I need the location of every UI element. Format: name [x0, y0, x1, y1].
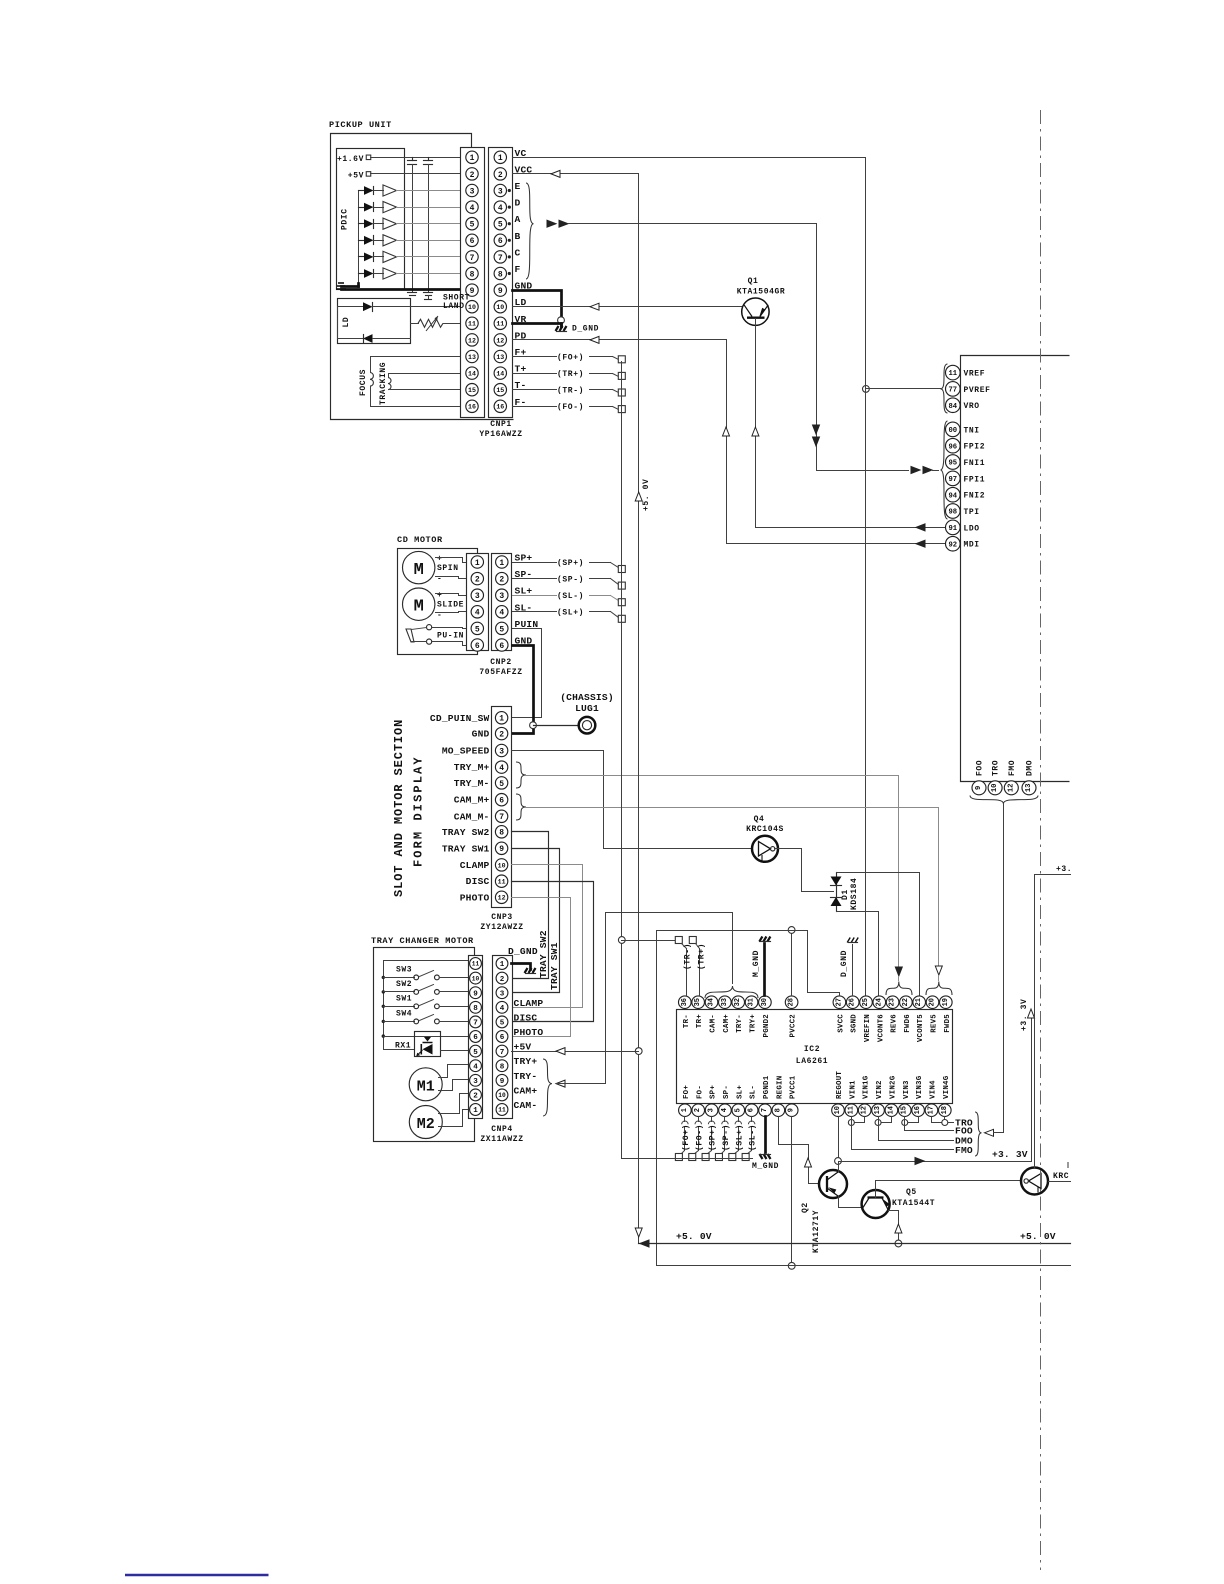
chassis lug LUG1	[579, 717, 596, 734]
svg-text:SL-: SL-	[750, 1085, 758, 1099]
IC2 pin 6 SL-	[745, 1104, 758, 1117]
wire EF group into TNI bracket	[817, 470, 909, 472]
motor M1	[409, 1068, 442, 1101]
svg-text:KDS184: KDS184	[850, 878, 859, 910]
IC2 pin 3 SP+	[705, 1104, 718, 1117]
IC2 pin 13 VIN2	[872, 1104, 885, 1117]
wire VCC to +5V bus	[513, 173, 639, 175]
IC2 pin 27 SVCC	[833, 996, 846, 1009]
wire VC junction to VREF bracket	[866, 388, 941, 390]
CNP4 board pin 2	[470, 1089, 482, 1101]
svg-text:CNP2: CNP2	[490, 658, 512, 667]
wire FOO group down to IC2 output bracket	[1003, 804, 1005, 1133]
svg-text:TNI: TNI	[964, 426, 980, 435]
wire (SL-) from CNP2 pin 3	[513, 595, 557, 597]
svg-text:CAM-: CAM-	[710, 1014, 718, 1033]
arrow into LDO	[916, 524, 925, 531]
svg-text:94: 94	[948, 492, 957, 500]
svg-text:SW4: SW4	[396, 1009, 412, 1018]
svg-text:SW2: SW2	[396, 980, 412, 989]
junction cable bus to TR squares	[618, 937, 625, 944]
svg-text:(TR-): (TR-)	[557, 387, 584, 396]
svg-text:CNP3: CNP3	[491, 913, 513, 922]
brace E..F group	[526, 183, 534, 279]
IC2 pin 32 TRY-	[732, 996, 745, 1009]
TRACKING coil	[388, 378, 391, 390]
cable terminal square (SP-)	[715, 1154, 722, 1161]
transistor Q5 KTA1544T	[862, 1190, 890, 1218]
servo IC pin 00 TNI	[946, 422, 961, 437]
svg-text:SPIN: SPIN	[437, 564, 459, 573]
IC2 pin 16 VIN3G	[912, 1104, 925, 1117]
wire bus junction to TR- square	[622, 940, 676, 942]
svg-text:+5. 0V: +5. 0V	[1020, 1231, 1056, 1242]
svg-text:6: 6	[499, 797, 504, 806]
double arrow down on EF wire	[813, 425, 820, 434]
svg-text:4: 4	[500, 1005, 505, 1013]
IC2 pin 21 VCONT5	[913, 996, 926, 1009]
IC2 pin 35 TR+	[692, 996, 705, 1009]
PVCC rail bottom	[657, 1265, 1071, 1267]
wire Q2 emitter to REGOUT junction	[838, 1162, 840, 1172]
hollow down arrow on +5V bus bottom	[635, 1228, 642, 1237]
wire junction to LUG1	[534, 725, 579, 727]
connector CNP1 board-side column box	[461, 148, 485, 418]
svg-text:14: 14	[468, 370, 476, 377]
svg-text:KRC104S: KRC104S	[746, 825, 784, 834]
wire TRY_M pair to REV6/FWD6	[527, 776, 899, 967]
hollow arrow TRY CAM group	[556, 1080, 565, 1087]
svg-text:16: 16	[914, 1106, 922, 1114]
IC2 pin 1 cable drop (FO+)	[684, 1117, 686, 1122]
svg-text:+3. 3V: +3. 3V	[1020, 999, 1029, 1031]
svg-text:Q2: Q2	[801, 1202, 810, 1213]
wire VIN4G pin18 join	[944, 1117, 946, 1123]
laser diode LD	[338, 306, 364, 308]
CNP4 board pin 9	[470, 987, 482, 999]
svg-text:12: 12	[468, 337, 476, 344]
wire D1 bottom to VCONT6	[837, 912, 879, 996]
brace over REV6 FWD6	[886, 982, 912, 996]
svg-text:2: 2	[499, 575, 504, 584]
svg-text:(SL+): (SL+)	[557, 609, 584, 618]
svg-text:11: 11	[498, 879, 506, 886]
wire PD to pin12 inside	[373, 338, 411, 340]
svg-text:VREF: VREF	[964, 370, 986, 379]
wire VIN1 pin11 to FMO line	[852, 1117, 954, 1150]
hollow up arrow on Q5 emitter wire	[895, 1224, 902, 1233]
thick wire PDIC gnd to pin9	[342, 288, 461, 291]
svg-text:D_GND: D_GND	[508, 946, 538, 957]
ground symbol D_GND at CNP4	[525, 968, 536, 973]
svg-text:9: 9	[500, 1078, 505, 1086]
svg-text:M_GND: M_GND	[752, 1162, 779, 1171]
wire SW2 to CNP4	[440, 991, 469, 993]
wire REGIN to Q2 base	[779, 1117, 820, 1184]
wire slide+ to CNP2 pin3	[436, 594, 467, 596]
CNP3 pin 3	[495, 744, 507, 756]
CNP1 pin 11 cable side	[494, 317, 506, 329]
svg-text:ZX11AWZZ: ZX11AWZZ	[480, 1135, 523, 1144]
svg-text:KRC: KRC	[1053, 1172, 1069, 1181]
svg-text:15: 15	[901, 1106, 909, 1114]
wire Q1 collector to LDO	[756, 319, 946, 528]
wire MO_SPEED to Q4	[512, 751, 753, 849]
svg-text:M: M	[414, 561, 424, 580]
svg-text:12: 12	[496, 337, 504, 344]
CNP1 pin 4 cable side	[494, 201, 506, 213]
CNP3 pin 7	[495, 810, 507, 822]
wire Q2 collector to Q5	[839, 1197, 862, 1208]
wire PDIC out pin 8	[397, 273, 461, 275]
cable terminal square (SP+)	[702, 1154, 709, 1161]
svg-text:2: 2	[470, 171, 475, 180]
svg-text:11: 11	[847, 1106, 855, 1114]
pickup cable bus wire	[621, 362, 623, 1159]
svg-text:35: 35	[694, 998, 702, 1006]
svg-text:25: 25	[862, 998, 870, 1006]
wire SW1 to CNP4	[440, 1006, 469, 1008]
solid right arrow on REGOUT wire	[915, 1158, 924, 1165]
IC2 pin 2 FO-	[692, 1104, 705, 1117]
ground symbol D_GND at CNP1	[556, 326, 567, 331]
wire VIN3 pin15 to FOO line	[905, 1117, 954, 1131]
svg-text:PGND2: PGND2	[763, 1014, 771, 1037]
svg-text:CAM_M-: CAM_M-	[454, 811, 490, 822]
svg-text:9: 9	[470, 287, 475, 296]
svg-text:M_GND: M_GND	[752, 950, 761, 977]
wire SW3 to CNP4	[440, 977, 469, 979]
svg-text:ZY12AWZZ: ZY12AWZZ	[480, 923, 523, 932]
svg-text:6: 6	[498, 237, 503, 246]
+3.3V riser with hollow arrow	[1031, 1014, 1033, 1162]
svg-text:CAM+: CAM+	[514, 1085, 538, 1096]
wire DISC CNP3 to CNP4	[512, 882, 594, 1022]
svg-text:VIN2: VIN2	[876, 1080, 884, 1099]
IC2 pin 5 cable drop (SL+)	[738, 1117, 740, 1122]
svg-text:DISC: DISC	[466, 876, 490, 887]
cable terminal square (SP-)	[618, 582, 625, 589]
wire PD pin12 down and to MDI	[513, 340, 946, 544]
(TR-) cable square	[675, 937, 682, 944]
svg-text:5: 5	[470, 221, 475, 230]
brace over REV5 FWD5	[926, 982, 952, 996]
servo IC pin 96 FPI2	[946, 438, 961, 453]
svg-text:MO_SPEED: MO_SPEED	[442, 746, 490, 757]
IC2 pin 14 VIN2G	[885, 1104, 898, 1117]
svg-text:C: C	[515, 247, 521, 258]
LD block bottom-left joint	[337, 307, 339, 339]
connector CNP2 cable column box	[492, 554, 512, 651]
svg-text:8: 8	[498, 270, 503, 279]
CNP2 pin 4 board side	[471, 606, 483, 618]
svg-text:VIN2G: VIN2G	[889, 1075, 897, 1099]
svg-text:5: 5	[473, 1049, 478, 1057]
svg-text:13: 13	[874, 1106, 882, 1114]
PDIC ground hatch	[336, 283, 346, 289]
svg-text:PVCC2: PVCC2	[790, 1014, 798, 1037]
CNP4 cable pin 5	[496, 1016, 508, 1028]
IC2 pin 9 PVCC1	[785, 1104, 798, 1117]
svg-text:B: B	[515, 231, 521, 242]
cable terminal square (SP+)	[618, 566, 625, 573]
IC2 pin 34 CAM-	[705, 996, 718, 1009]
svg-text:+1.6V: +1.6V	[337, 155, 364, 164]
svg-text:TRY-: TRY-	[736, 1014, 744, 1033]
capacitor C1	[412, 158, 414, 161]
svg-text:CAM+: CAM+	[723, 1014, 731, 1033]
svg-text:TRAY CHANGER MOTOR: TRAY CHANGER MOTOR	[371, 936, 474, 946]
servo IC box edge	[961, 356, 1070, 782]
IC2 pin 28 PVCC2	[785, 996, 798, 1009]
svg-text:3: 3	[708, 1108, 716, 1112]
svg-text:3: 3	[470, 187, 475, 196]
svg-text:14: 14	[496, 370, 504, 377]
wire (TR+) from CNP1 pin 14	[513, 373, 557, 375]
svg-text:KTA1504GR: KTA1504GR	[737, 288, 786, 297]
brace over IC2 pins 34-31	[705, 986, 758, 998]
hollow up arrow on REGIN wire	[805, 1158, 812, 1167]
svg-text:7: 7	[473, 1020, 478, 1028]
svg-text:4: 4	[473, 1063, 478, 1071]
wire tracking to pin15	[389, 389, 461, 391]
wire TRAY SW1 CNP3 to CNP4	[512, 849, 560, 993]
wire pu-in gnd to CNP2 pin6	[432, 642, 467, 646]
wire Q3 collector riser to +3.3V stub	[1035, 875, 1071, 1168]
svg-text:2: 2	[475, 575, 480, 584]
svg-text:11: 11	[496, 321, 504, 328]
wire bus end to RX1	[384, 1049, 415, 1051]
svg-text:10: 10	[498, 862, 506, 869]
wire Q3 emitter right clipped	[1049, 1181, 1071, 1183]
IC2 pin 10 REGOUT	[832, 1104, 845, 1117]
IC2 pin 5 SL+	[732, 1104, 745, 1117]
CNP1 pin 12 cable side	[494, 334, 506, 346]
wire (SP-) from CNP2 pin 2	[513, 578, 557, 580]
CNP1 pin 14 cable side	[494, 367, 506, 379]
svg-text:TRAY SW2: TRAY SW2	[538, 930, 549, 978]
svg-text:PVREF: PVREF	[964, 386, 991, 395]
svg-text:1: 1	[500, 961, 505, 969]
svg-text:+5. 0V: +5. 0V	[642, 479, 651, 511]
junction Q5 emitter on +5V rail	[895, 1240, 902, 1247]
CNP4 cable pin 1	[496, 958, 508, 970]
wire EF group to TNI group	[569, 224, 817, 471]
svg-text:(FO-): (FO-)	[695, 1124, 704, 1151]
LD block box	[338, 299, 411, 344]
LAND pad symbol	[424, 292, 433, 294]
cable terminal square (TR+)	[618, 372, 625, 379]
svg-text:1: 1	[499, 559, 504, 568]
photodiode D3 with amp, pin 5	[359, 223, 365, 225]
wire spin- to CNP2 pin2	[436, 577, 467, 579]
photodiode D4 with amp, pin 6	[359, 240, 365, 242]
svg-text:91: 91	[948, 525, 957, 533]
IC2 pin 26 SGND	[846, 996, 859, 1009]
IC2 pin 23 REV6	[886, 996, 899, 1009]
brace TRY_M pair	[516, 762, 526, 788]
PDIC anode bus	[358, 191, 360, 284]
svg-text:5: 5	[734, 1108, 742, 1112]
svg-text:+3.: +3.	[1056, 865, 1072, 874]
hollow arrow into bracket	[985, 1129, 994, 1136]
IC2 pin 31 TRY+	[745, 996, 758, 1009]
solid down arrow on TRY wire	[895, 967, 902, 976]
svg-text:CLAMP: CLAMP	[514, 998, 544, 1009]
CNP4 board pin 10	[470, 972, 482, 984]
svg-text:FPI2: FPI2	[964, 443, 986, 452]
CNP3 pin 1	[495, 712, 507, 724]
wire VR to pin11	[411, 323, 419, 325]
junction circle on GND drop	[558, 317, 565, 324]
wire M1 to CNP4 pin4	[439, 1065, 469, 1078]
svg-text:10: 10	[468, 304, 476, 311]
svg-text:CAM-: CAM-	[514, 1100, 538, 1111]
svg-text:7: 7	[500, 1049, 505, 1057]
wire pin2 +5V	[371, 173, 461, 175]
svg-text:SGND: SGND	[851, 1014, 859, 1033]
svg-text:16: 16	[468, 404, 476, 411]
wire PUIN to CD_PUIN_SW	[512, 629, 542, 718]
CNP1 pin 8 cable side	[494, 267, 506, 279]
svg-text:6: 6	[473, 1034, 478, 1042]
IC2 pin 18 VIN4G	[939, 1104, 952, 1117]
svg-text:21: 21	[915, 998, 923, 1006]
wire pin1 +1.6V	[371, 157, 461, 159]
IC2 pin 11 VIN1	[845, 1104, 858, 1117]
svg-text:RX1: RX1	[395, 1042, 411, 1051]
svg-text:TRAY SW2: TRAY SW2	[442, 827, 490, 838]
svg-text:9: 9	[499, 845, 504, 854]
wire tracking to pin14	[389, 374, 461, 378]
svg-text:FO+: FO+	[683, 1085, 691, 1099]
jog TR- square to pin36	[682, 944, 687, 949]
photodiode D5 with amp, pin 7	[359, 256, 365, 258]
wire VIN2 pin13 to DMO line	[879, 1117, 954, 1141]
wire +5V CNP4 pin7	[512, 1051, 639, 1053]
svg-text:Q4: Q4	[754, 815, 765, 824]
wire pu-in to CNP2 pin5	[432, 628, 467, 629]
CNP1 pin 3 cable side	[494, 184, 506, 196]
CNP1 pin 9 board side	[466, 284, 478, 296]
ground symbol M_GND at pin30	[759, 937, 770, 942]
svg-text:36: 36	[681, 998, 689, 1006]
CNP1 pin 10 board side	[466, 301, 478, 313]
svg-text:PHOTO: PHOTO	[460, 892, 490, 903]
svg-text:M: M	[414, 598, 424, 617]
CNP3 pin 8	[495, 826, 507, 838]
IC2 pin 12 VIN1G	[858, 1104, 871, 1117]
svg-text:FMO: FMO	[1008, 760, 1017, 776]
thick wire VR pin11 to D_GND	[513, 324, 562, 327]
svg-text:26: 26	[849, 998, 857, 1006]
svg-text:TRY+: TRY+	[514, 1056, 538, 1067]
CNP4 cable pin 3	[496, 987, 508, 999]
hollow arrow on Q1 collector	[752, 427, 759, 436]
wire (TR-) from CNP1 pin 15	[513, 389, 557, 391]
SHORT pad symbol	[408, 292, 417, 294]
brace TNI group	[941, 421, 948, 519]
servo IC pin 92 MDI	[946, 536, 961, 551]
svg-text:D: D	[515, 198, 521, 209]
svg-text:8: 8	[500, 1063, 505, 1071]
connector CNP4 board column box	[469, 956, 483, 1119]
svg-text:5: 5	[475, 625, 480, 634]
servo IC pin 84 VRO	[946, 398, 961, 413]
CNP1 pin 5 board side	[466, 218, 478, 230]
wire VIN1G pin12 join	[852, 1117, 865, 1123]
jog TR+ square to pin35	[696, 944, 700, 949]
svg-text:VIN1G: VIN1G	[863, 1075, 871, 1099]
svg-text:+3. 3V: +3. 3V	[992, 1149, 1028, 1160]
cable terminal square (SL-)	[618, 599, 625, 606]
svg-text:1: 1	[473, 1107, 478, 1115]
svg-text:14: 14	[887, 1106, 895, 1114]
svg-text:1: 1	[498, 154, 503, 163]
svg-text:TRY-: TRY-	[514, 1071, 538, 1082]
capacitor C2	[428, 158, 430, 161]
IC2 pin 22 FWD6	[900, 996, 913, 1009]
wire spin+ to CNP2 pin1	[436, 558, 467, 563]
svg-text:(FO-): (FO-)	[557, 403, 584, 412]
CNP2 pin 5 cable side	[496, 622, 508, 634]
svg-text:(FO+): (FO+)	[682, 1124, 691, 1151]
brace under FOO TRO FMO DMO	[970, 796, 1038, 804]
svg-text:11: 11	[472, 961, 480, 968]
svg-text:TRACKING: TRACKING	[379, 362, 388, 405]
svg-text:16: 16	[496, 404, 504, 411]
thick wire CNP2 GND down to CNP3 GND	[512, 646, 534, 734]
cable terminal square (FO+)	[618, 356, 625, 363]
svg-text:31: 31	[748, 998, 756, 1006]
M_GND thick stub at IC2 pin30	[763, 944, 766, 996]
switch PU-IN	[406, 629, 414, 642]
svg-text:(SP+): (SP+)	[557, 559, 584, 568]
svg-text:FPI1: FPI1	[964, 475, 986, 484]
svg-text:PU-IN: PU-IN	[437, 632, 464, 641]
wire M2 to CNP4 pin1	[439, 1110, 469, 1127]
svg-text:15: 15	[468, 387, 476, 394]
svg-text:CAM_M+: CAM_M+	[454, 795, 490, 806]
svg-text:VCONT6: VCONT6	[877, 1014, 885, 1042]
svg-text:CLAMP: CLAMP	[460, 860, 490, 871]
svg-text:6: 6	[475, 642, 480, 651]
cable terminal square (TR-)	[618, 389, 625, 396]
svg-text:30: 30	[761, 998, 769, 1006]
svg-text:TRAY SW1: TRAY SW1	[549, 942, 560, 990]
svg-text:VIN4G: VIN4G	[943, 1075, 951, 1099]
brace VREF group	[941, 364, 948, 413]
wire PDIC out pin 4	[397, 207, 461, 209]
svg-text:PGND1: PGND1	[763, 1075, 771, 1099]
svg-text:IC2: IC2	[804, 1045, 820, 1054]
svg-text:9: 9	[498, 287, 503, 296]
svg-text:(SP-): (SP-)	[557, 575, 584, 584]
svg-text:20: 20	[929, 998, 937, 1006]
wire VC down to VREFIN	[865, 158, 867, 996]
CNP4 cable pin 4	[496, 1001, 508, 1013]
photodiode D1 with amp, pin 3	[359, 190, 365, 192]
CNP1 pin 3 board side	[466, 184, 478, 196]
cable terminal square (FO-)	[618, 406, 625, 413]
svg-text:(FO+): (FO+)	[557, 353, 584, 362]
ground symbol D_GND at IC2	[847, 938, 858, 943]
svg-text:SLOT AND MOTOR SECTION: SLOT AND MOTOR SECTION	[392, 719, 406, 897]
svg-text:FNI1: FNI1	[964, 459, 986, 468]
svg-text:8: 8	[470, 270, 475, 279]
brace TRY CAM group CNP4	[543, 1059, 552, 1116]
wire VIN3G pin16 join	[905, 1117, 919, 1123]
